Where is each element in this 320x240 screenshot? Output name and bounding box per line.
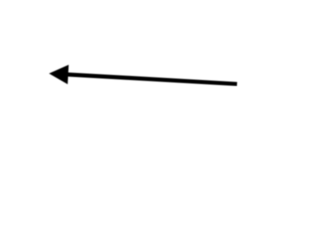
arrow shaft <box>67 74 238 84</box>
arrow head <box>49 65 69 84</box>
